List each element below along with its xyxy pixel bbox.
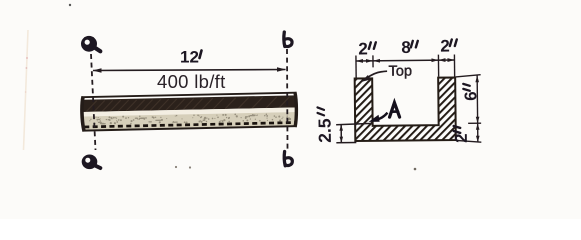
svg-text:2.5: 2.5 — [315, 118, 335, 143]
beam center dashed line — [84, 123, 295, 127]
dim text 2" top-right — [440, 36, 457, 55]
beam bottom outline — [83, 125, 295, 131]
beam right end cap — [294, 92, 296, 127]
top dim extension lines — [356, 54, 455, 77]
dim text 2" top-left — [358, 39, 376, 58]
distributed load (dark band) — [83, 95, 296, 112]
beam with distributed load — [82, 92, 297, 132]
svg-text:12: 12 — [180, 48, 199, 67]
node b (bottom) — [284, 152, 292, 166]
dim text 2.5" left (rotated) — [314, 107, 334, 143]
channel section (hatched U shape) — [355, 77, 456, 141]
beam body (light band) — [83, 108, 296, 117]
top dim line with arrows — [356, 58, 455, 63]
svg-text:2: 2 — [358, 39, 368, 58]
node a (bottom) — [82, 155, 101, 170]
label A with arrow — [389, 103, 399, 118]
section line b-b — [286, 49, 289, 149]
speck top — [69, 4, 71, 6]
dim 6" and 2" right: extensions — [456, 75, 482, 143]
svg-text:Top: Top — [389, 63, 413, 79]
dimension 12' line — [93, 67, 287, 73]
beam top outline — [82, 92, 296, 98]
beam left end cap — [82, 96, 85, 131]
dim text 2" right (rotated) — [452, 126, 471, 143]
svg-text:2: 2 — [440, 37, 450, 56]
svg-text:8: 8 — [401, 38, 411, 57]
dim text 12' — [180, 48, 202, 67]
speck bottom dots — [175, 166, 177, 168]
node a (top) — [81, 36, 100, 52]
svg-text:2: 2 — [452, 133, 471, 143]
dim text 8" top — [401, 38, 418, 57]
svg-text:6: 6 — [461, 91, 480, 101]
dim text 6" right (rotated) — [461, 84, 480, 101]
scan streak — [24, 30, 29, 150]
section line a-a — [91, 54, 96, 150]
dim 2.5" left: ticks — [336, 123, 372, 142]
svg-text:400 lb/ft: 400 lb/ft — [157, 71, 226, 92]
node b (top) — [284, 32, 292, 47]
